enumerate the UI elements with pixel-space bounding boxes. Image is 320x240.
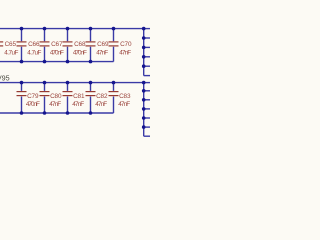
svg-text:47nF: 47nF (49, 101, 61, 108)
junction ladder y108.9 (142, 107, 146, 111)
capacitor C81 plates (63, 91, 73, 92)
junction top bus right (142, 27, 146, 31)
junction bus2 C68 (66, 60, 70, 64)
svg-text:470nF: 470nF (73, 49, 87, 56)
junction ladder y47.4 (142, 46, 146, 50)
junction bus3 C81 (66, 81, 70, 85)
junction top bus C66 (20, 27, 24, 31)
wire stub pin y38 (144, 37, 150, 39)
wire stub pin y136.2 (144, 135, 150, 137)
junction bus2 C67 (43, 60, 47, 64)
svg-text:C65: C65 (5, 41, 17, 48)
junction bus2 C69 (89, 60, 93, 64)
junction bus3 C83 (112, 81, 116, 85)
wire C67 leads (44, 29, 46, 62)
wire stub pin y118 (144, 117, 150, 119)
svg-text:47nF: 47nF (72, 101, 84, 108)
svg-text:C79: C79 (27, 93, 39, 100)
capacitor C68 plates (63, 41, 73, 42)
svg-text:C69: C69 (97, 41, 109, 48)
wire C81 leads (67, 83, 69, 113)
junction bus4 C82 (89, 111, 93, 115)
svg-text:4.7uF: 4.7uF (27, 49, 41, 56)
junction ladder y118 (142, 116, 146, 120)
wire stub pin y66.2 (144, 65, 150, 67)
svg-text:470nF: 470nF (50, 49, 64, 56)
junction ladder y90.8 (142, 89, 146, 93)
wire top bus net1 (0, 28, 144, 30)
wire stub pin y90.8 (144, 90, 150, 92)
capacitor C66 plates (17, 41, 27, 42)
capacitor C82 plates (86, 91, 96, 92)
svg-text:47nF: 47nF (119, 49, 131, 56)
wire stub pin y108.9 (144, 108, 150, 110)
capacitor C80 plates (40, 91, 50, 92)
svg-text:C82: C82 (96, 93, 108, 100)
svg-text:C81: C81 (73, 93, 85, 100)
capacitor C69 plates (86, 41, 96, 42)
svg-text:4.7uF: 4.7uF (4, 49, 18, 56)
junction ladder y99.8 (142, 98, 146, 102)
wire third bus net3 V95 (0, 82, 144, 84)
junction top bus C70 (112, 27, 116, 31)
junction top bus C69 (89, 27, 93, 31)
wire lower right vertical (143, 83, 145, 137)
junction ladder y127.1 (142, 125, 146, 129)
capacitor C67 plates (40, 41, 50, 42)
capacitor C70 plates (109, 41, 119, 42)
wire stub pin y56.8 (144, 56, 150, 58)
svg-text:V95: V95 (0, 73, 10, 82)
capacitor C83 plates (109, 91, 119, 92)
junction top bus C68 (66, 27, 70, 31)
junction bus3 C82 (89, 81, 93, 85)
junction bus4 C81 (66, 111, 70, 115)
wire second bus net2 (0, 61, 114, 63)
junction bus3 C80 (43, 81, 47, 85)
wire C70 leads (113, 29, 115, 62)
wire C69 leads (90, 29, 92, 62)
junction bus2 C66 (20, 60, 24, 64)
wire C79 leads (21, 83, 23, 113)
junction ladder y66.2 (142, 64, 146, 68)
wire C80 leads (44, 83, 46, 113)
svg-text:C80: C80 (50, 93, 62, 100)
wire stub pin y47.4 (144, 46, 150, 48)
junction ladder y56.8 (142, 55, 146, 59)
svg-text:C83: C83 (119, 93, 131, 100)
wire stub pin y75.6 (144, 75, 150, 77)
svg-text:C68: C68 (74, 41, 86, 48)
wire C68 leads (67, 29, 69, 62)
wire stub pin y127.1 (144, 126, 150, 128)
junction bus4 C79 (20, 111, 24, 115)
wire stub pin y99.8 (144, 99, 150, 101)
svg-text:470nF: 470nF (26, 101, 40, 108)
svg-text:47nF: 47nF (118, 101, 130, 108)
svg-text:47nF: 47nF (96, 49, 108, 56)
junction bus3 C79 (20, 81, 24, 85)
capacitor C79 plates (17, 91, 27, 92)
wire C66 leads (21, 29, 23, 62)
svg-text:47nF: 47nF (95, 101, 107, 108)
wire fourth bus net4 (0, 112, 114, 114)
junction bus4 C80 (43, 111, 47, 115)
svg-text:C66: C66 (28, 41, 40, 48)
capacitor C65 plates (clipped at left edge) (0, 41, 3, 42)
junction top bus C67 (43, 27, 47, 31)
junction ladder y38 (142, 36, 146, 40)
svg-text:C70: C70 (120, 41, 132, 48)
wire C83 leads (113, 83, 115, 113)
wire C82 leads (90, 83, 92, 113)
wire stub pin y82.6 (144, 82, 150, 84)
junction bus3 right (142, 81, 146, 85)
wire stub pin y28.6 (144, 28, 150, 30)
svg-text:C67: C67 (51, 41, 63, 48)
wire upper right vertical (143, 29, 145, 76)
